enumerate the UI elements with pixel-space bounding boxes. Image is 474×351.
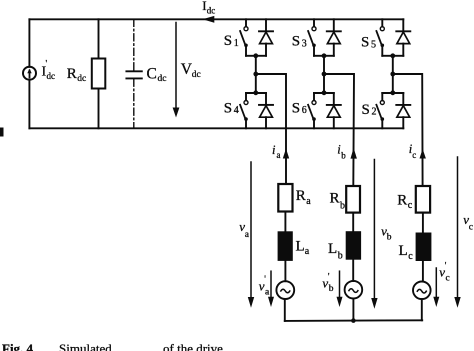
- svg-text:R: R: [397, 193, 407, 209]
- node leg2 upper junction: [322, 53, 327, 58]
- svg-text:L: L: [296, 239, 305, 255]
- wire source a to neutral: [284, 299, 286, 321]
- svg-text:2: 2: [372, 107, 377, 118]
- wire phase c output: [393, 74, 423, 186]
- node leg1 upper junction: [253, 53, 258, 58]
- wire La to source a: [284, 261, 286, 281]
- node leg1 phase tap: [253, 72, 258, 77]
- wire Rb to Lb: [352, 213, 354, 232]
- arrow Idc (current on top rail, pointing left): [203, 16, 215, 23]
- label vb': [322, 272, 333, 294]
- node neutral junction: [351, 318, 356, 323]
- label vc': [439, 261, 450, 284]
- voltage source vb' (AC): [345, 281, 363, 299]
- svg-text:4: 4: [234, 105, 239, 116]
- label S6: [292, 101, 307, 117]
- svg-text:a: a: [305, 246, 310, 257]
- diode D2: [396, 93, 410, 128]
- label Rb: [330, 191, 346, 212]
- node leg2 phase tap: [322, 72, 327, 77]
- svg-text:dc: dc: [77, 74, 86, 84]
- svg-text:S: S: [362, 102, 370, 118]
- wire left DC branch lower: [28, 80, 30, 129]
- capacitor Cdc: [126, 19, 141, 128]
- arrow vc' (source voltage, down): [433, 268, 439, 307]
- svg-text:Simulated: Simulated: [59, 341, 112, 351]
- diode D4: [259, 93, 273, 128]
- resistor Rdc: [92, 19, 106, 128]
- svg-text:S: S: [292, 101, 300, 117]
- voltage source va' (AC): [276, 281, 294, 299]
- wire left DC branch upper: [28, 19, 30, 67]
- wire neutral bottom: [285, 319, 422, 322]
- svg-text:c: c: [412, 150, 416, 160]
- wire leg2 lower cell top: [314, 92, 334, 94]
- node leg2 lower junction: [322, 90, 327, 95]
- inductor Lc: [416, 233, 432, 262]
- svg-text:C: C: [147, 66, 157, 83]
- resistor Rc: [416, 186, 430, 213]
- svg-text:S: S: [361, 35, 369, 51]
- svg-text:Fig. 4: Fig. 4: [2, 341, 34, 351]
- svg-text:3: 3: [302, 39, 307, 50]
- svg-text:R: R: [67, 66, 77, 82]
- label La: [296, 239, 310, 257]
- current source Idc': [23, 67, 36, 80]
- resistor Ra: [278, 184, 292, 212]
- svg-text:dc: dc: [47, 71, 56, 81]
- voltage source vc' (AC): [413, 282, 431, 300]
- label va': [259, 274, 270, 297]
- inductor Lb: [346, 231, 361, 260]
- diode D1: [256, 19, 273, 56]
- diode D3: [324, 19, 341, 56]
- wire leg1 lower cell top: [246, 92, 266, 94]
- label Rc: [397, 193, 413, 212]
- wire Rc to Lc: [422, 213, 424, 233]
- arrow va (phase voltage, down): [248, 162, 254, 308]
- wire phase a output: [256, 74, 286, 184]
- wire Lc to source c: [422, 261, 424, 282]
- wire source b to neutral: [352, 299, 354, 321]
- arrow ib (current, up): [351, 148, 357, 159]
- label va: [239, 219, 250, 240]
- svg-text:b: b: [329, 284, 334, 294]
- svg-text:dc: dc: [207, 6, 216, 16]
- node leg3 upper junction: [390, 53, 395, 58]
- label Cdc: [147, 66, 167, 85]
- resistor Rb: [346, 186, 360, 213]
- label S5: [361, 35, 376, 51]
- wire source c to neutral: [421, 299, 423, 320]
- wire phase b output: [324, 74, 354, 186]
- arrow vc (phase voltage, down): [454, 157, 460, 308]
- svg-text:1: 1: [234, 38, 239, 49]
- svg-text:S: S: [292, 34, 300, 50]
- switch S5: [376, 19, 392, 56]
- svg-text:S: S: [224, 101, 232, 117]
- caption Fig. 4 (clipped at page bottom): [2, 341, 223, 351]
- svg-text:L: L: [328, 241, 337, 257]
- scan artifact left edge: [0, 128, 4, 137]
- wire leg1 midpoint: [255, 56, 257, 93]
- svg-text:S: S: [224, 33, 232, 49]
- wire leg2 midpoint: [323, 56, 325, 93]
- label ia: [272, 143, 281, 160]
- svg-text:i: i: [272, 143, 276, 157]
- svg-text:c: c: [408, 251, 413, 262]
- svg-text:b: b: [338, 250, 343, 261]
- switch S1: [240, 19, 256, 56]
- label Idc: [202, 0, 215, 16]
- label Idc': [42, 59, 56, 82]
- switch S4: [240, 93, 248, 128]
- wire leg3 midpoint: [392, 56, 394, 93]
- switch S6: [308, 93, 316, 128]
- svg-text:6: 6: [302, 105, 307, 116]
- svg-text:a: a: [306, 196, 311, 207]
- arrow Vdc (voltage reference, down): [173, 23, 180, 118]
- svg-text:c: c: [408, 200, 413, 211]
- svg-text:L: L: [399, 243, 408, 259]
- svg-text:dc: dc: [192, 70, 201, 80]
- switch S3: [308, 19, 324, 56]
- arrow vb (phase voltage, down): [371, 160, 377, 309]
- wire Ra to La: [284, 212, 286, 232]
- label Rdc: [67, 66, 86, 84]
- svg-text:of the drive: of the drive: [163, 341, 223, 351]
- label Lb: [328, 241, 343, 261]
- label S2: [362, 102, 377, 118]
- label S3: [292, 34, 307, 50]
- switch S2: [376, 93, 384, 128]
- svg-text:R: R: [296, 188, 306, 204]
- label ib: [337, 143, 346, 161]
- arrow ia (current, up): [283, 149, 289, 159]
- arrow vb' (source voltage, down): [337, 271, 343, 307]
- label vb: [381, 224, 392, 243]
- svg-text:b: b: [387, 232, 392, 242]
- label Lc: [399, 243, 414, 262]
- svg-text:b: b: [340, 200, 345, 211]
- svg-text:c: c: [446, 273, 450, 283]
- label vc: [463, 212, 473, 232]
- label S4: [224, 101, 239, 117]
- label S1: [224, 33, 239, 49]
- label Ra: [296, 188, 312, 207]
- label Vdc: [181, 61, 201, 80]
- label ic: [409, 142, 417, 160]
- node leg1 lower junction: [253, 90, 258, 95]
- svg-text:a: a: [277, 150, 281, 160]
- svg-text:5: 5: [371, 40, 376, 51]
- diode D6: [327, 93, 341, 128]
- diode D5: [393, 19, 411, 56]
- svg-text:R: R: [330, 191, 340, 207]
- node leg3 lower junction: [390, 90, 395, 95]
- node leg3 phase tap: [390, 72, 395, 77]
- wire Lb to source b: [352, 260, 354, 281]
- wire leg3 lower cell top: [382, 92, 403, 94]
- svg-text:b: b: [341, 151, 346, 161]
- arrow ic (current, up): [420, 149, 426, 159]
- svg-text:dc: dc: [158, 74, 167, 84]
- wire bottom DC rail: [29, 127, 403, 129]
- inductor La: [278, 231, 293, 261]
- svg-text:c: c: [469, 222, 473, 232]
- wire top DC rail: [29, 18, 403, 20]
- arrow va' (source voltage, down): [268, 271, 274, 307]
